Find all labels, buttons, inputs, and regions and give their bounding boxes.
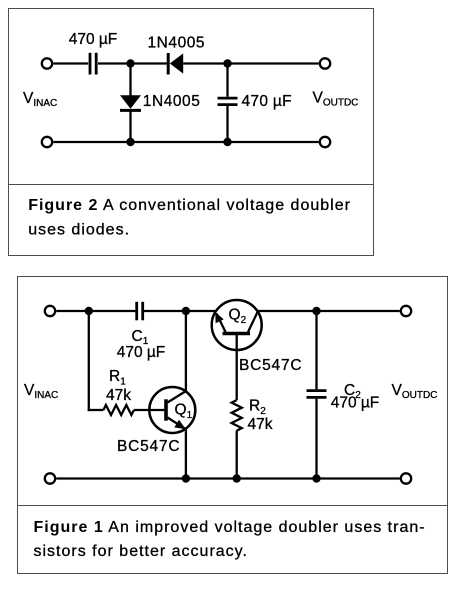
terminal output bottom (fig2) (320, 137, 330, 147)
svg-text:1N4005: 1N4005 (147, 35, 205, 52)
wire shunt diode to bottom rail (fig2) (129, 110, 131, 142)
svg-text:uses diodes.: uses diodes. (28, 221, 130, 238)
svg-text:VOUTDC: VOUTDC (313, 89, 359, 108)
wire C2 branch top (fig1) (315, 311, 317, 389)
wire cap to node A (fig2) (98, 62, 167, 64)
svg-text:470 µF: 470 µF (69, 31, 118, 48)
svg-text:Figure 2 A conventional voltag: Figure 2 A conventional voltage doubler (28, 197, 351, 214)
figure 1 caption divider (17, 505, 448, 507)
node B junction dot (fig2) (223, 59, 231, 67)
node A junction dot (fig2) (126, 59, 134, 67)
junction dot C2 top (fig1) (312, 307, 320, 315)
wire node A down to shunt diode (fig2) (129, 64, 131, 97)
svg-text:sistors for better accuracy.: sistors for better accuracy. (34, 543, 248, 560)
svg-text:47k: 47k (106, 387, 131, 404)
svg-text:BC547C: BC547C (117, 438, 180, 455)
junction dot bottom rail right (fig2) (223, 138, 231, 146)
wire shunt cap to bottom rail (fig2) (226, 106, 228, 142)
resistor R1 47k zigzag (fig1) (103, 405, 133, 415)
wire node B down to shunt cap (fig2) (226, 64, 228, 97)
wire corner to R1 (fig1) (88, 409, 104, 411)
wire bottom rail (fig1) (56, 477, 399, 479)
svg-text:Q1: Q1 (175, 402, 193, 422)
terminal output top (fig2) (320, 58, 330, 68)
junction dot Q1 emitter bottom (fig1) (182, 474, 190, 482)
svg-text:VINAC: VINAC (24, 382, 58, 401)
diode D1 1N4005 series (fig2) (168, 53, 183, 75)
capacitor C1 (fig1) (137, 302, 143, 321)
terminal input top (fig2) (42, 58, 52, 68)
svg-text:470 µF: 470 µF (242, 93, 292, 110)
wire top rail right segment (fig2) (228, 62, 319, 64)
svg-text:R2: R2 (249, 398, 266, 418)
wire C2 branch bottom (fig1) (315, 399, 317, 479)
junction dot bottom rail left (fig2) (126, 138, 134, 146)
svg-text:R1: R1 (109, 368, 126, 388)
svg-text:1N4005: 1N4005 (143, 93, 201, 110)
capacitor 470uF shunt (fig2) (218, 98, 238, 105)
figure 2 caption text (28, 197, 351, 238)
junction dot Q1 collector node (fig1) (182, 307, 190, 315)
svg-text:470 µF: 470 µF (117, 344, 166, 361)
junction dot R2 bottom (fig1) (233, 474, 241, 482)
svg-text:BC547C: BC547C (239, 357, 302, 374)
wire node R1 down (fig1) (88, 311, 90, 411)
terminal input bottom (fig2) (42, 137, 52, 147)
wire R2 to bottom rail (fig1) (236, 431, 238, 479)
wire top rail left to C1 (fig1) (56, 310, 135, 312)
capacitor 470uF series (fig2) (90, 53, 96, 75)
junction dot node R1 top (fig1) (85, 307, 93, 315)
terminal input bottom (fig1) (45, 473, 55, 483)
terminal input top (fig1) (45, 306, 55, 316)
terminal output top (fig1) (401, 306, 411, 316)
svg-text:470 µF: 470 µF (331, 395, 380, 412)
capacitor C2 (fig1) (307, 391, 327, 398)
figure 1 caption text (34, 519, 426, 560)
wire C1 to Q2 emitter (fig1) (144, 310, 216, 312)
figure 1 frame (18, 277, 448, 574)
resistor R2 47k zigzag (fig1) (232, 400, 242, 431)
wire Q1 emitter down to rail (fig1) (185, 429, 187, 478)
svg-text:VOUTDC: VOUTDC (392, 382, 438, 401)
figure 2 caption divider (8, 184, 374, 186)
wire Q1 collector up to rail (fig1) (185, 311, 187, 391)
wire R1 to Q1 base (fig1) (134, 409, 165, 411)
wire Q2 base down to R2 (fig1) (236, 335, 238, 401)
diode D2 1N4005 shunt (fig2) (120, 95, 141, 110)
svg-text:47k: 47k (248, 416, 273, 433)
junction dot C2 bottom (fig1) (312, 474, 320, 482)
svg-text:VINAC: VINAC (23, 90, 57, 109)
wire bottom rail (fig2) (53, 141, 318, 143)
transistor Q1 BC547C (fig1) (149, 387, 195, 433)
terminal output bottom (fig1) (401, 473, 411, 483)
svg-text:Figure 1 An improved voltage d: Figure 1 An improved voltage doubler use… (34, 519, 426, 536)
transistor Q2 BC547C (fig1) (212, 300, 262, 350)
figure 2 frame (9, 9, 374, 256)
wire diode to node B (fig2) (183, 62, 227, 64)
wire top rail left segment (fig2) (53, 62, 88, 64)
svg-text:Q2: Q2 (229, 307, 247, 327)
wire Q2 collector to output rail (fig1) (257, 310, 400, 312)
